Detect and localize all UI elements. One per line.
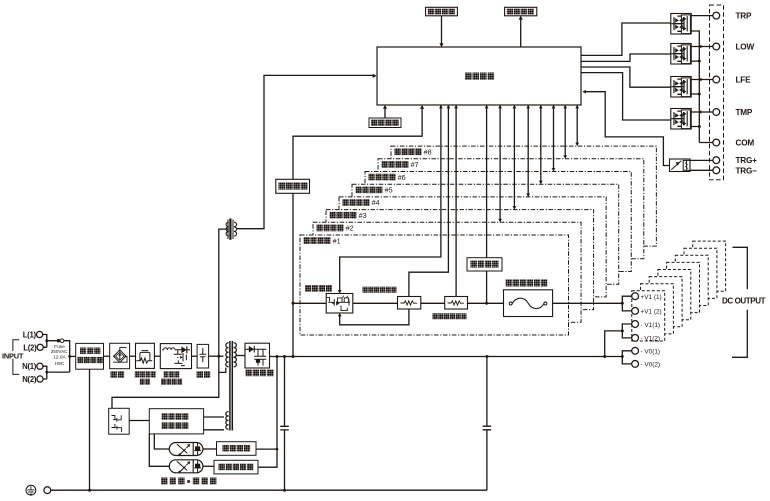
rectify+smooth block 整流平滑 [245,343,270,368]
wire N terminals join [43,366,47,379]
fuse block 電流ヒューズ F2 [504,290,553,317]
label 高周波電流抑制 [161,371,182,385]
svg-text:- V0(2): - V0(2) [641,362,661,369]
label 電流検出抵抗 (R1) [363,287,397,293]
svg-text:H9C: H9C [55,361,65,367]
wire temp detect to op [384,106,386,118]
svg-text:TRG+: TRG+ [736,156,758,165]
label 突入電流制限 [135,371,156,385]
wire fuse output to noise filter [68,355,71,358]
resistor R1 電流検出抵抗 [398,297,421,310]
photocoupler PC1 [169,443,203,457]
capacitor C1 [280,357,289,491]
wire op to K4 [581,73,671,120]
branch circuit box 分岐回路#2 [313,222,581,322]
node main bus start [292,302,295,305]
label 分岐回路#2 [317,224,354,233]
terminal TRG+ [713,157,720,164]
cutoff block 遮断回路 [326,294,353,314]
output terminal group box #6 [675,255,708,305]
svg-text:#1: #1 [333,236,341,245]
wire op control to branch #6 [553,105,555,170]
wire op to K1 [581,23,671,55]
signal terminal strip (dashed) [710,5,724,180]
inrush limiter block 突入電流制限 [136,343,155,368]
branch circuit box 分岐回路#5 [352,184,619,284]
terminal +V1(1) [632,293,639,300]
svg-text:L(2): L(2) [23,343,37,352]
wire main positive line [293,302,622,304]
wire bus tap down to drive switch [112,356,219,408]
wire drive to feedback winding top [204,416,224,418]
wire -V0 stubs [622,351,631,364]
overvoltage detect block 過電圧検出 [214,460,258,474]
label 遮断回路 [305,285,332,292]
wire TRG input to op [584,92,670,166]
branch circuit box 分岐回路#8 [391,146,656,246]
bracket N group [13,359,19,375]
wire K4 contact to TMP [691,111,713,113]
svg-text:+V1 (2): +V1 (2) [641,309,662,316]
wire op to branch voltage detect [486,105,488,303]
fuse symbol F1 [57,339,60,342]
relay K4 (TMP) [671,109,691,130]
label 電流ヒューズ [506,280,548,287]
HF suppress block 高周波電流抑制 [160,344,191,369]
wire pc2 to overvoltage detect [203,465,214,467]
svg-text:TRG−: TRG− [736,166,758,175]
terminal L(2) [37,344,43,350]
wire overvoltage detect to rail [258,357,277,468]
wire fuse loop top (L) [47,341,70,372]
wire aux winding left down to bus tap [219,229,229,356]
terminal L(1) [37,331,43,337]
relay K1 (TRP) [671,14,691,35]
svg-text:TMP: TMP [736,108,753,117]
wire secondary to rectify-smooth block [236,355,245,357]
svg-text:- V1(2): - V1(2) [641,336,661,343]
svg-text:DC OUTPUT: DC OUTPUT [722,297,766,306]
main transformer T1 [226,341,237,431]
label 分岐回路#1 [304,236,341,245]
branch circuit box 分岐回路#3 [326,210,594,310]
branch circuit box 分岐回路#1 [300,235,569,335]
capacitor C2 [483,357,492,491]
output terminal group box #5 [667,262,700,312]
label 分岐回路#7 [382,160,419,169]
wire voltage detect to main bus [292,193,294,356]
ground terminal PE symbol [26,485,36,495]
output terminal group box #4 [658,270,691,320]
wire relay common bus to COM [691,31,713,143]
aux transformer T2 [226,219,237,240]
terminal LFE [713,76,720,83]
terminal TRP [713,12,720,19]
svg-text:#4: #4 [372,198,380,207]
wire inrush to hf suppress [154,355,160,357]
output terminal group box #1 [632,291,665,341]
resistor R2 電流検出抵抗 [445,297,468,310]
svg-text:COM: COM [736,139,755,148]
svg-text:N(2): N(2) [22,375,37,384]
wire op to display [520,17,522,47]
wire voltage detect to rail [256,448,277,450]
wire op control to branch #3 [513,105,515,209]
wire op to K2 [581,54,671,61]
wire L terminals join [43,335,47,348]
noise filter block ノイズフィルタ [76,343,104,369]
terminal COM [713,139,720,146]
wire voltage detect to op [293,106,422,179]
terminal N(1) [37,363,43,369]
branch circuit box 分岐回路#6 [365,172,631,272]
label 分岐回路#5 [356,186,393,195]
bracket L group [13,340,19,351]
voltage detect block 電圧検出 (secondary) [217,442,257,456]
wire +V1 stubs [622,296,631,311]
wire drive to photocoupler row2 [149,434,169,466]
wire K2 contact to LOW [691,46,713,48]
branch circuit box 分岐回路#7 [378,159,644,259]
terminal N(2) [37,376,43,382]
terminal TMP [713,109,720,116]
wire TRG+ [690,159,713,161]
wire K3 contact to LFE [691,79,713,81]
drive control block ドライブ制御回路 [149,409,203,434]
ground rail wire [51,489,487,491]
wire op to R2 sense [455,105,457,297]
temp detect block 温度検出 [369,118,401,128]
wire op control to branch #4 [527,105,529,196]
wire op to K3 [581,67,671,87]
label 分岐回路#3 [330,211,367,220]
svg-text:LOW: LOW [736,43,755,52]
svg-text:#7: #7 [411,160,419,169]
switch block スイッチ [426,7,458,16]
wire -V1 join to rail [605,331,623,357]
svg-text:- V0(1): - V0(1) [641,349,661,356]
terminal -V1(2) [632,335,639,342]
svg-text:12.0A: 12.0A [53,354,66,360]
wire op to cutoff control [340,105,441,292]
voltage detect block 電圧検出 (branch) [467,258,502,271]
wire pc1 to voltage detect [203,448,217,450]
relay K3 (LFE) [671,77,691,98]
wire rectifier to inrush limiter [130,355,136,357]
wire rectify-smooth output to bus [270,356,623,358]
switching device block Q1 [109,408,130,434]
label 分岐回路#4 [343,198,380,207]
terminal LOW [713,43,720,50]
wire aux winding to op input [237,75,376,228]
label 整流 [111,371,125,378]
svg-text:#8: #8 [424,147,432,156]
wire op control to branch #2 [499,105,501,221]
wire noise filter ground [89,369,91,490]
DC OUTPUT bracket [732,247,747,357]
TRG photocoupler block PC3 [670,159,691,172]
wire noise filter to rectifier [104,355,110,357]
svg-text:- V1(1): - V1(1) [641,322,661,329]
label 平滑 [197,371,211,378]
relay K2 (LOW) [671,44,691,65]
output terminal group box #8 [693,241,726,291]
terminal TRG− [713,167,720,174]
terminal -V1(1) [632,321,639,328]
wire op control to branch #5 [540,105,542,183]
label 分岐回路#6 [369,173,406,182]
voltage detect block 電圧検出 (primary) [276,179,310,193]
wire drive to photocoupler row1 [154,434,169,449]
wire -V1 stubs [622,324,631,338]
svg-text:250VAC: 250VAC [51,349,68,354]
terminal -V0(1) [632,347,639,354]
svg-text:TRP: TRP [736,12,753,21]
terminal +V1(2) [632,308,639,315]
svg-text:#2: #2 [346,224,354,233]
wire cutoff sense loop [340,309,409,325]
ground terminal circle [44,487,51,494]
op block 演算回路 U1 [377,47,581,105]
wire op control to branch #7 [564,105,566,158]
svg-text:N(1): N(1) [22,362,37,371]
terminal -V0(2) [632,361,639,368]
label 整流平滑 [245,370,273,377]
wire switch to op [441,16,443,46]
wire drive to feedback winding bottom [204,429,224,431]
smoothing block 平滑 [197,344,209,368]
photocoupler PC2 [169,460,203,474]
wire K1 contact to TRP [691,15,713,17]
svg-text:#6: #6 [398,173,406,182]
wire hf to smoothing [192,355,198,357]
display block 表示回路 [505,7,537,16]
rectifier block (bridge) [110,343,130,368]
output terminal group box #3 [649,277,682,327]
output terminal group box #7 [684,248,717,298]
label フォト・カプラ [161,478,216,485]
wire primary bottom jog [219,368,226,373]
wire switch to drive control [129,420,149,422]
svg-text:#3: #3 [359,211,367,220]
wire smoothing to transformer [209,355,224,357]
output terminal group box #2 [641,284,674,334]
branch circuit box 分岐回路#4 [339,197,606,297]
wire op to R1 sense [409,105,449,297]
svg-text:+V1 (1): +V1 (1) [641,294,662,301]
svg-text:LFE: LFE [736,76,752,85]
svg-text:L(1): L(1) [23,331,37,340]
label 電流検出抵抗 (R2) [433,313,467,319]
wire op control to branch #8 [576,105,578,145]
wire TRG- [690,169,713,171]
svg-text:#5: #5 [385,186,393,195]
label 分岐回路#8 [395,147,432,156]
